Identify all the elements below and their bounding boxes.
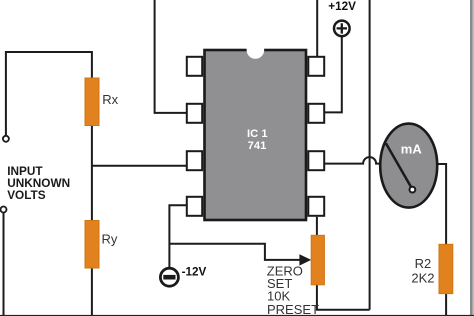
- supply -12V symbol: [160, 268, 178, 286]
- IC label: [247, 128, 268, 152]
- wire IC pin 6 output to meter with hop: [325, 157, 381, 163]
- wire preset bottom to vertical net: [317, 285, 370, 310]
- IC pin 4 left: [187, 197, 202, 216]
- svg-text:Ry: Ry: [102, 231, 118, 246]
- svg-text:IC 1: IC 1: [247, 128, 268, 140]
- wire top feedback to IC pin 2 (left row 2): [155, 0, 186, 113]
- wire IC pin 4 (left row 4) to -12V: [169, 205, 186, 267]
- supply +12V symbol: [334, 21, 350, 37]
- IC pin 6 right: [308, 151, 324, 170]
- wire input+ terminal to Rx top: [6, 52, 92, 136]
- meter needle pivot: [410, 187, 416, 193]
- resistor Rx: [85, 78, 99, 126]
- IC notch: [247, 41, 265, 59]
- wire meter right to R2: [437, 164, 446, 244]
- wire +12V supply to IC pin 7 (right row 2): [325, 37, 342, 113]
- svg-text:VOLTS: VOLTS: [7, 188, 46, 202]
- op-amp IC1 741 body: [205, 50, 307, 220]
- IC pin 7 right: [308, 104, 324, 123]
- wire long vertical net: [369, 0, 371, 310]
- wire IC pin 5 (right row 4) to preset top: [316, 217, 318, 236]
- svg-text:mA: mA: [401, 141, 423, 156]
- wire Ry bottom to page bottom: [91, 268, 93, 316]
- IC pin 1 left: [187, 57, 202, 76]
- terminal input+: [3, 136, 9, 142]
- wire node junction to IC pin 2 left: [92, 165, 186, 167]
- IC pin 8 right: [308, 57, 324, 76]
- svg-text:-12V: -12V: [182, 266, 207, 279]
- wire input- terminal down: [3, 213, 5, 316]
- meter mA body: [380, 124, 437, 208]
- label ZERO SET 10K PRESET: [267, 264, 319, 316]
- svg-text:741: 741: [248, 140, 267, 152]
- preset potentiometer 10K: [311, 235, 324, 284]
- meter needle: [386, 143, 412, 189]
- IC pin 2 left: [187, 104, 202, 123]
- svg-text:PRESET: PRESET: [267, 302, 319, 316]
- wire R2 bottom to page bottom: [445, 294, 447, 316]
- arrowhead preset wiper: [299, 254, 311, 265]
- wire -12V branch to preset wiper arrow: [169, 244, 300, 260]
- label R2 2K2: [411, 256, 434, 285]
- terminal input-: [1, 207, 7, 213]
- wire Rx bottom to Ry top: [91, 125, 93, 221]
- resistor R2: [439, 244, 453, 293]
- resistor Ry: [85, 221, 99, 269]
- svg-text:2K2: 2K2: [411, 270, 434, 285]
- svg-text:+12V: +12V: [328, 0, 356, 13]
- IC pin 5 right: [308, 197, 324, 216]
- wire top to IC pin 8 (right row 1): [316, 0, 318, 56]
- label INPUT UNKNOWN VOLTS: [7, 164, 70, 202]
- svg-text:R2: R2: [415, 256, 432, 271]
- IC pin 3 left: [187, 151, 202, 170]
- svg-text:Rx: Rx: [102, 92, 118, 107]
